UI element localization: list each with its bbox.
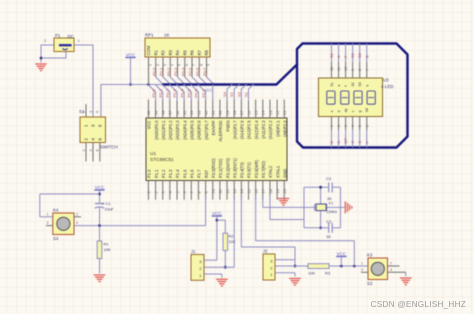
svg-text:VCC: VCC (337, 252, 347, 257)
svg-text:ALE/PROG: ALE/PROG (218, 121, 223, 142)
svg-text:COM: COM (146, 45, 151, 55)
svg-text:35: 35 (182, 110, 187, 115)
svg-text:S1: S1 (244, 91, 249, 97)
svg-text:(AD2)P0.2: (AD2)P0.2 (168, 120, 173, 140)
svg-text:(AD6)P0.6: (AD6)P0.6 (197, 120, 202, 140)
svg-text:5: 5 (358, 125, 362, 127)
svg-text:S3: S3 (358, 82, 362, 86)
svg-text:S3: S3 (236, 91, 241, 97)
svg-text:R2: R2 (161, 49, 166, 55)
svg-text:3: 3 (344, 125, 348, 127)
svg-text:3: 3 (361, 268, 363, 272)
svg-text:C: C (350, 141, 355, 144)
svg-text:26: 26 (246, 110, 251, 115)
svg-text:VCC: VCC (147, 120, 152, 129)
svg-text:5: 5 (96, 111, 100, 113)
svg-text:C3: C3 (326, 176, 332, 181)
svg-text:29: 29 (225, 110, 230, 115)
svg-text:11: 11 (337, 67, 341, 71)
svg-text:K4: K4 (53, 208, 59, 213)
svg-text:(A15)P2.7: (A15)P2.7 (232, 120, 237, 139)
svg-text:P1.2: P1.2 (161, 169, 166, 178)
svg-text:38: 38 (161, 110, 166, 115)
svg-text:2: 2 (82, 149, 86, 151)
svg-text:(AD5)P0.5: (AD5)P0.5 (190, 120, 195, 140)
svg-text:4: 4 (76, 221, 78, 225)
svg-text:E: E (329, 141, 334, 144)
svg-text:P0.7: P0.7 (202, 67, 207, 76)
svg-text:(AD7)P0.7: (AD7)P0.7 (204, 120, 209, 140)
svg-text:P0.5: P0.5 (187, 88, 192, 97)
svg-text:31: 31 (211, 110, 216, 115)
svg-text:R7: R7 (197, 49, 202, 55)
svg-text:P0.6: P0.6 (195, 67, 200, 76)
svg-text:U3: U3 (383, 78, 389, 83)
svg-text:P0.4: P0.4 (180, 67, 185, 76)
svg-text:8: 8 (199, 64, 203, 66)
svg-text:P0.1: P0.1 (158, 88, 163, 97)
svg-text:P3.2(INT0): P3.2(INT0) (225, 157, 230, 178)
svg-text:5: 5 (178, 64, 182, 66)
svg-text:S1: S1 (79, 109, 85, 114)
svg-text:24: 24 (261, 110, 266, 115)
svg-text:7: 7 (192, 64, 196, 66)
svg-text:1: 1 (330, 125, 334, 127)
svg-text:g: g (358, 110, 362, 112)
svg-text:23: 23 (268, 110, 273, 115)
svg-text:dp: dp (344, 108, 348, 112)
svg-text:P1.1: P1.1 (154, 169, 159, 178)
svg-text:4-LED: 4-LED (381, 84, 393, 89)
svg-text:P0.0: P0.0 (151, 88, 156, 97)
svg-text:P0.1: P0.1 (159, 67, 164, 76)
svg-text:R8: R8 (204, 49, 209, 55)
svg-text:7: 7 (365, 69, 369, 71)
svg-text:2: 2 (390, 262, 392, 266)
svg-text:30: 30 (218, 110, 223, 115)
svg-text:P3.6(WR): P3.6(WR) (254, 159, 259, 178)
svg-text:15: 15 (246, 188, 251, 193)
svg-text:c: c (351, 110, 355, 112)
svg-text:1: 1 (47, 213, 49, 217)
svg-text:P1.0: P1.0 (147, 169, 152, 178)
svg-text:VCC: VCC (212, 211, 222, 216)
svg-text:(AD1)P0.1: (AD1)P0.1 (161, 120, 166, 140)
svg-text:3: 3 (163, 64, 167, 66)
svg-text:P1.7: P1.7 (197, 169, 202, 178)
svg-text:VCC: VCC (204, 89, 212, 93)
svg-text:19: 19 (275, 188, 280, 193)
svg-text:6: 6 (96, 149, 100, 151)
svg-text:2: 2 (156, 64, 160, 66)
svg-text:P3.3(INT1): P3.3(INT1) (232, 157, 237, 178)
svg-text:(AD0)P0.0: (AD0)P0.0 (154, 120, 159, 140)
svg-text:P3.0(RXD): P3.0(RXD) (211, 158, 216, 178)
svg-text:R4: R4 (175, 49, 180, 55)
svg-text:10uF: 10uF (105, 207, 115, 212)
svg-text:P0.3: P0.3 (172, 88, 177, 97)
svg-text:33: 33 (196, 110, 201, 115)
svg-text:P3.7(RD): P3.7(RD) (261, 160, 266, 178)
svg-text:DC: DC (68, 34, 74, 39)
svg-text:4: 4 (170, 64, 174, 66)
svg-text:21: 21 (282, 110, 287, 115)
svg-text:R1: R1 (153, 49, 158, 55)
svg-text:(A9)P2.1: (A9)P2.1 (275, 120, 280, 137)
svg-text:S4: S4 (222, 91, 227, 97)
svg-text:30: 30 (326, 234, 331, 239)
svg-text:10K: 10K (104, 247, 111, 252)
svg-text:13: 13 (232, 188, 237, 193)
svg-text:SWITCH: SWITCH (100, 145, 118, 150)
svg-text:S2: S2 (351, 82, 355, 86)
svg-text:(AD3)P0.3: (AD3)P0.3 (175, 120, 180, 140)
svg-text:VCC: VCC (95, 185, 105, 190)
svg-text:XTAL2: XTAL2 (268, 165, 273, 178)
svg-text:22: 22 (275, 110, 280, 115)
svg-text:2: 2 (44, 39, 46, 43)
svg-text:R3: R3 (168, 49, 173, 55)
svg-text:10: 10 (211, 188, 216, 193)
svg-text:R1: R1 (104, 242, 110, 247)
svg-text:P3.1(TXD): P3.1(TXD) (218, 158, 223, 178)
svg-text:P0.4: P0.4 (179, 88, 184, 97)
svg-text:12: 12 (225, 188, 230, 193)
svg-text:S3: S3 (357, 52, 362, 58)
svg-text:6: 6 (365, 125, 369, 127)
svg-text:a: a (337, 85, 341, 87)
svg-text:40: 40 (146, 110, 151, 115)
svg-text:RP1: RP1 (145, 33, 154, 38)
svg-text:PSEN: PSEN (225, 120, 230, 131)
svg-text:S1: S1 (330, 82, 334, 86)
svg-text:1: 1 (78, 39, 80, 43)
svg-text:2: 2 (337, 125, 341, 127)
svg-text:RST: RST (204, 169, 209, 178)
svg-text:4: 4 (390, 268, 392, 272)
svg-text:d: d (337, 110, 341, 112)
svg-text:39: 39 (153, 110, 158, 115)
svg-text:3: 3 (89, 111, 93, 113)
svg-text:P1.4: P1.4 (175, 169, 180, 178)
svg-text:Y1: Y1 (328, 201, 334, 206)
svg-text:DP: DP (343, 138, 348, 144)
svg-text:25: 25 (253, 110, 258, 115)
svg-text:8: 8 (358, 69, 362, 71)
svg-text:18: 18 (268, 188, 273, 193)
svg-text:STC89C51: STC89C51 (150, 157, 174, 163)
svg-text:(A12)P2.4: (A12)P2.4 (254, 120, 259, 139)
svg-text:4: 4 (89, 149, 93, 151)
svg-text:16: 16 (253, 188, 258, 193)
svg-text:G: G (357, 140, 362, 143)
svg-text:S4: S4 (53, 236, 59, 241)
svg-text:C1: C1 (106, 201, 112, 206)
svg-text:A: A (336, 55, 341, 58)
svg-text:R6: R6 (190, 49, 195, 55)
svg-text:(A14)P2.6: (A14)P2.6 (240, 120, 245, 139)
svg-text:P0.6: P0.6 (194, 88, 199, 97)
svg-text:P1.3: P1.3 (168, 169, 173, 178)
svg-text:P3.4(T0): P3.4(T0) (240, 161, 245, 178)
svg-text:17: 17 (261, 188, 266, 193)
svg-text:XTAL1: XTAL1 (275, 165, 280, 178)
svg-text:P1: P1 (55, 33, 61, 38)
svg-text:12MHz: 12MHz (326, 210, 337, 214)
svg-text:K3: K3 (367, 253, 373, 258)
svg-text:P0.2: P0.2 (166, 67, 171, 76)
svg-text:34: 34 (189, 110, 194, 115)
svg-text:R3: R3 (325, 271, 331, 276)
svg-text:27: 27 (239, 110, 244, 115)
svg-text:S1: S1 (329, 52, 334, 58)
svg-text:R2: R2 (229, 234, 235, 239)
svg-text:1K: 1K (164, 33, 169, 38)
svg-text:P1.6: P1.6 (190, 169, 195, 178)
svg-text:(AD4)P0.4: (AD4)P0.4 (182, 120, 187, 140)
svg-text:P0.3: P0.3 (173, 67, 178, 76)
svg-text:P1.5: P1.5 (182, 169, 187, 178)
svg-text:VCC: VCC (126, 53, 136, 58)
svg-text:D: D (336, 141, 341, 144)
svg-text:(A11)P2.3: (A11)P2.3 (261, 120, 266, 139)
svg-text:37: 37 (168, 110, 173, 115)
svg-text:10K: 10K (229, 239, 236, 244)
svg-text:C2: C2 (326, 219, 332, 224)
svg-text:R5: R5 (182, 49, 187, 55)
svg-text:1: 1 (149, 64, 153, 66)
svg-text:B: B (364, 55, 369, 58)
svg-text:S2: S2 (350, 52, 355, 58)
svg-text:9: 9 (207, 64, 211, 66)
svg-text:U1: U1 (150, 151, 156, 157)
svg-text:e: e (330, 110, 334, 112)
svg-text:J1: J1 (191, 249, 196, 254)
svg-text:f: f (344, 86, 348, 87)
svg-text:12: 12 (330, 67, 334, 71)
svg-text:2: 2 (76, 213, 78, 217)
svg-text:28: 28 (232, 110, 237, 115)
svg-text:P0.2: P0.2 (165, 88, 170, 97)
svg-text:1: 1 (361, 262, 363, 266)
svg-text:(A8)P2.0: (A8)P2.0 (282, 120, 287, 137)
svg-text:10K: 10K (308, 271, 315, 276)
svg-text:S4: S4 (365, 108, 369, 112)
svg-text:20: 20 (282, 188, 287, 193)
svg-text:b: b (365, 85, 369, 87)
svg-text:3: 3 (47, 221, 49, 225)
svg-text:4: 4 (351, 125, 355, 127)
svg-text:GND: GND (282, 169, 287, 178)
svg-text:14: 14 (239, 188, 244, 193)
svg-text:P0.5: P0.5 (188, 67, 193, 76)
svg-text:J2: J2 (263, 249, 268, 254)
svg-text:S2: S2 (229, 91, 234, 97)
svg-text:6: 6 (185, 64, 189, 66)
svg-text:9: 9 (351, 69, 355, 71)
svg-text:P0.0: P0.0 (151, 67, 156, 76)
svg-text:32: 32 (203, 110, 208, 115)
svg-text:EA/VPP: EA/VPP (211, 120, 216, 135)
svg-text:10: 10 (344, 67, 348, 71)
svg-text:P3.5(T1): P3.5(T1) (247, 161, 252, 178)
svg-text:(A13)P2.5: (A13)P2.5 (247, 120, 252, 139)
svg-text:(A10)P2.2: (A10)P2.2 (268, 120, 273, 139)
svg-text:36: 36 (175, 110, 180, 115)
svg-text:S3: S3 (367, 281, 373, 286)
